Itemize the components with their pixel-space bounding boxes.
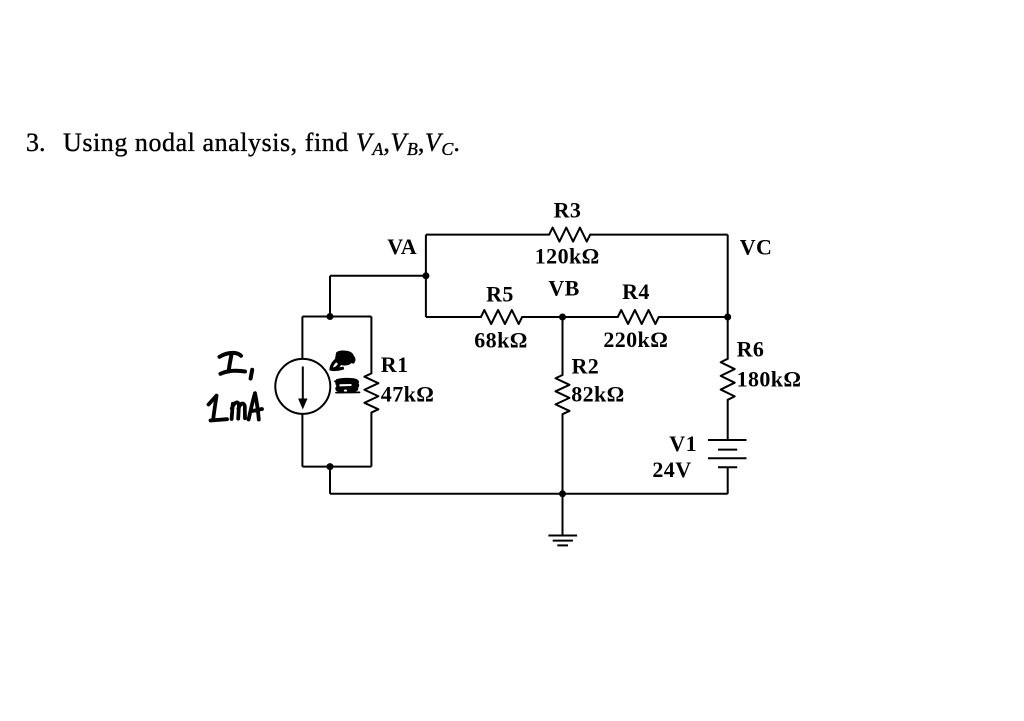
svg-text:180kΩ: 180kΩ — [737, 367, 802, 392]
resistor R5 — [481, 310, 522, 324]
resistor R3 — [549, 228, 590, 242]
scribble blob over old R1 label (top) — [335, 351, 354, 366]
wire mid rail right segment — [659, 316, 728, 318]
wire R2 top lead — [562, 317, 564, 375]
node dot branch top — [327, 313, 334, 320]
wire mid rail left segment — [426, 316, 481, 318]
ground bar 1 — [548, 535, 577, 537]
svg-text:R2: R2 — [572, 354, 600, 379]
svg-text:VC: VC — [740, 235, 773, 260]
svg-text:82kΩ: 82kΩ — [571, 381, 624, 406]
problem number — [0, 0, 1024, 1]
battery V1 plate long top — [708, 439, 747, 441]
svg-text:220kΩ: 220kΩ — [603, 327, 668, 352]
scribble loop over old R1 label (lower-left) — [331, 357, 354, 370]
resistor R2 — [556, 375, 570, 414]
svg-text:120kΩ: 120kΩ — [535, 244, 600, 269]
svg-text:R1: R1 — [381, 352, 409, 377]
wire source branch top — [302, 316, 371, 318]
svg-text:47kΩ: 47kΩ — [381, 382, 434, 407]
resistor R1 — [364, 373, 378, 412]
svg-text:VB: VB — [548, 275, 579, 300]
wire mid rail center segment — [522, 316, 618, 318]
wire VA vertical up to top rail — [425, 235, 427, 317]
scribble blob over old value (bottom) — [335, 378, 359, 393]
handwritten value 1mA — [209, 393, 263, 420]
wire R1 bottom lead — [370, 413, 372, 467]
scribble hairline tails — [335, 381, 360, 393]
wire source branch bottom — [302, 466, 371, 468]
svg-text:R6: R6 — [737, 337, 765, 362]
node VB junction dot — [559, 314, 566, 321]
node dot branch bottom — [327, 463, 334, 470]
battery V1 plate short — [718, 449, 737, 451]
wire battery bottom lead — [727, 467, 729, 494]
wire VA stub horizontal — [330, 275, 426, 277]
wire R6 bottom lead — [727, 400, 729, 440]
svg-text:VA: VA — [387, 234, 417, 259]
ground bar 3 — [557, 544, 568, 546]
svg-text:24V: 24V — [652, 457, 691, 482]
wire R2 bottom lead — [562, 414, 564, 494]
svg-text:R5: R5 — [486, 282, 514, 307]
wire bottom rail — [330, 493, 728, 495]
wire R6 top lead — [727, 317, 729, 359]
current source I1 circle — [275, 359, 330, 414]
node dot bottom rail ground junction — [559, 490, 566, 497]
battery V1 plate short bottom — [718, 466, 737, 468]
handwritten current label I1 — [220, 353, 253, 379]
battery V1 plate long — [708, 457, 747, 459]
node VA junction dot — [422, 272, 429, 279]
svg-text:R3: R3 — [554, 198, 582, 223]
wire bottom drop to ground rail — [329, 467, 331, 494]
svg-text:68kΩ: 68kΩ — [474, 328, 527, 353]
svg-text:R4: R4 — [622, 279, 650, 304]
wire left drop from VA stub — [329, 276, 331, 317]
ground stem — [562, 494, 564, 536]
resistor R6 — [721, 359, 735, 400]
wire current source bottom lead — [301, 414, 303, 467]
scribble blob white slit — [340, 384, 352, 386]
node VC junction dot — [724, 314, 731, 321]
wire R1 top lead — [370, 317, 372, 374]
current source I1 arrow — [302, 367, 304, 400]
scribble blob white speck — [344, 390, 347, 392]
wire top rail right segment — [590, 234, 728, 236]
ground bar 2 — [553, 540, 573, 542]
wire current source top lead — [301, 317, 303, 359]
resistor R4 — [618, 310, 659, 324]
wire VC vertical from top rail — [727, 235, 729, 317]
current source I1 arrowhead — [298, 399, 307, 410]
svg-text:V1: V1 — [669, 431, 697, 456]
wire top rail left segment — [426, 234, 549, 236]
